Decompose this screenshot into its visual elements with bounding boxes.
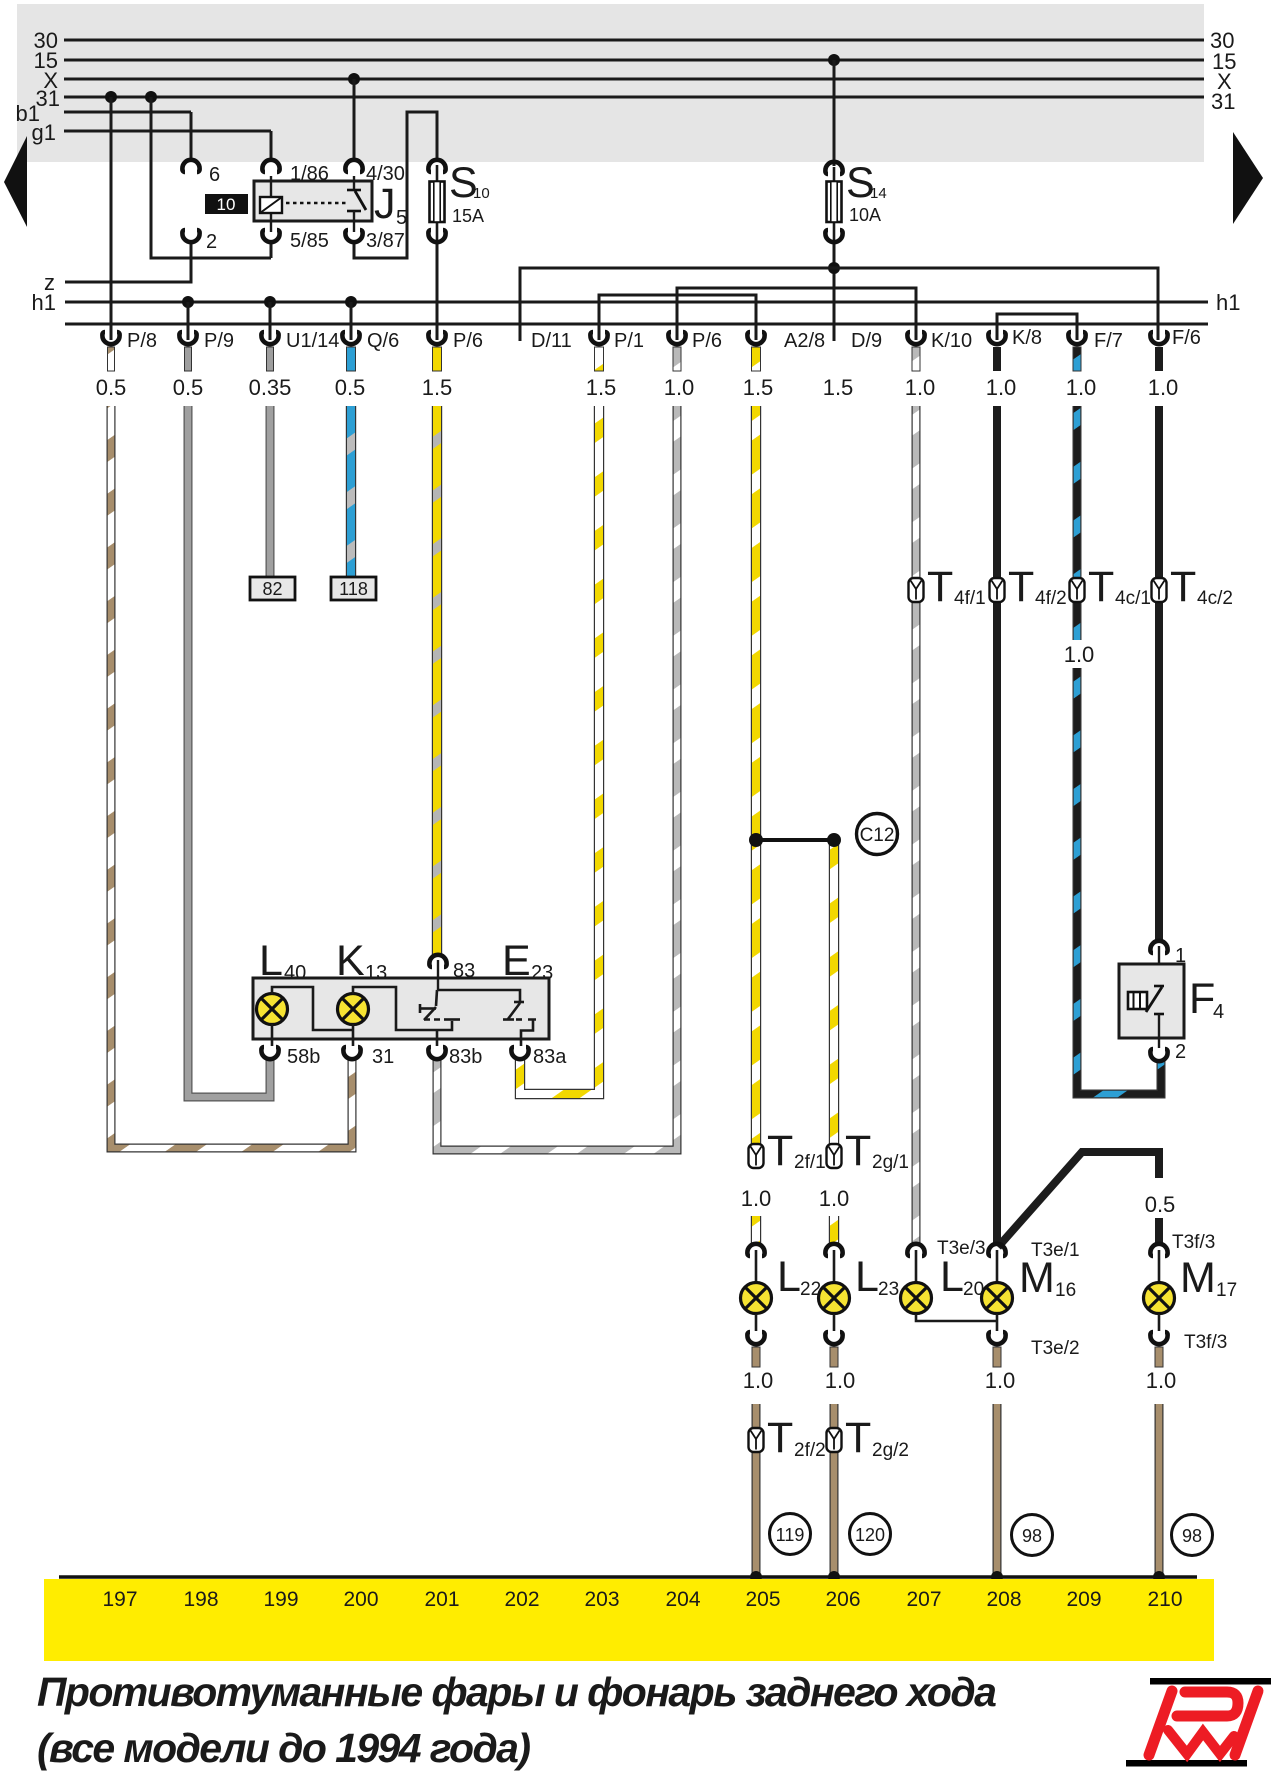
svg-text:F/6: F/6: [1172, 327, 1201, 349]
svg-text:0.35: 0.35: [249, 375, 292, 400]
svg-text:1.0: 1.0: [1148, 375, 1179, 400]
label C12: [857, 814, 898, 855]
svg-text:h1: h1: [1216, 290, 1240, 315]
terminal D/11: [520, 324, 572, 352]
svg-text:40: 40: [284, 962, 306, 984]
line B (P/6 - K/10): [677, 288, 916, 340]
svg-text:Противотуманные фары и фонарь: Противотуманные фары и фонарь заднего хо…: [37, 1669, 996, 1715]
logo: [1126, 1678, 1271, 1767]
svg-text:83: 83: [453, 960, 475, 982]
bus 31: [36, 86, 1236, 114]
fuse S10: [428, 159, 489, 242]
svg-text:14: 14: [870, 185, 887, 202]
svg-text:209: 209: [1066, 1588, 1101, 1611]
svg-text:4f/2: 4f/2: [1035, 588, 1067, 609]
svg-text:D/11: D/11: [531, 330, 572, 352]
gauge labels lamp grounds: [743, 1368, 1177, 1393]
svg-text:0.5: 0.5: [335, 375, 366, 400]
ground point 119: [770, 1514, 811, 1555]
svg-text:P/8: P/8: [127, 330, 157, 352]
lamp unit L23: [819, 1244, 900, 1344]
box 82: [250, 577, 295, 600]
connector T4f/2: [990, 563, 1067, 611]
svg-text:119: 119: [776, 1525, 805, 1545]
terminal D/9: [851, 330, 882, 352]
svg-text:120: 120: [855, 1525, 885, 1545]
terminal P/9: [179, 330, 234, 352]
svg-text:g1: g1: [32, 120, 56, 145]
svg-text:82: 82: [262, 579, 282, 599]
wire P/8 brown-white: [111, 406, 352, 1148]
relay J5: [254, 176, 407, 232]
wire P/9 gray: [188, 406, 270, 1097]
svg-text:1.0: 1.0: [986, 375, 1017, 400]
svg-text:1.0: 1.0: [1146, 1368, 1177, 1393]
wire P/6 yellow-gray: [432, 406, 442, 956]
svg-text:E: E: [502, 937, 531, 985]
terminal A2/8: [747, 330, 825, 352]
box 118: [331, 577, 376, 600]
svg-text:207: 207: [906, 1588, 941, 1611]
svg-text:6: 6: [209, 164, 220, 186]
svg-text:L: L: [259, 937, 283, 985]
svg-text:203: 203: [584, 1588, 619, 1611]
wire P/1 white-yellow to 83a: [520, 406, 599, 1094]
svg-text:T3e/1: T3e/1: [1031, 1240, 1080, 1261]
svg-text:1.0: 1.0: [741, 1186, 772, 1211]
terminal 2: [182, 230, 217, 253]
ground point 98: [1012, 1515, 1053, 1556]
lamp L40: [257, 994, 288, 1025]
ground rail: [59, 1575, 1197, 1579]
svg-text:P/6: P/6: [453, 330, 483, 352]
wire A2/8 yellow-white: [751, 406, 761, 1144]
terminal 58b: [261, 1046, 320, 1068]
gray header band: [17, 4, 1204, 162]
svg-text:L: L: [940, 1253, 964, 1301]
svg-text:K/10: K/10: [931, 330, 972, 352]
svg-text:U1/14: U1/14: [286, 330, 339, 352]
svg-text:31: 31: [1211, 89, 1235, 114]
junction link C12: [756, 838, 834, 842]
bus g1: [32, 120, 271, 145]
wire h1 to Q/6: [350, 302, 353, 340]
svg-text:118: 118: [339, 579, 368, 599]
wire 5/85 down: [270, 242, 273, 258]
connector T2g/2: [827, 1414, 909, 1462]
svg-text:5: 5: [396, 207, 407, 229]
terminal 3/87: [345, 230, 405, 252]
ground point 120: [850, 1514, 891, 1555]
svg-text:2f/2: 2f/2: [794, 1440, 826, 1461]
connector T2g/1: [827, 1127, 909, 1175]
svg-text:199: 199: [263, 1588, 298, 1611]
svg-text:2g/1: 2g/1: [872, 1152, 909, 1173]
E23 internal wiring: [272, 987, 536, 1046]
svg-text:83a: 83a: [533, 1046, 567, 1068]
svg-text:1.0: 1.0: [743, 1368, 774, 1393]
wire 15 to S14: [833, 60, 836, 166]
brown wire stubs under lamps: [752, 1347, 1163, 1367]
svg-text:15A: 15A: [452, 206, 484, 226]
node dot 31/x151: [145, 91, 157, 103]
wire T2g/1 to L23: [829, 1216, 839, 1246]
svg-text:P/1: P/1: [614, 330, 644, 352]
terminal 83: [429, 955, 475, 982]
bus 15: [34, 48, 1237, 74]
switch unit box L40 K13 E23: [253, 937, 553, 1039]
svg-text:208: 208: [986, 1588, 1021, 1611]
svg-text:201: 201: [424, 1588, 459, 1611]
svg-text:0.5: 0.5: [173, 375, 204, 400]
svg-text:5/85: 5/85: [290, 230, 329, 252]
svg-text:200: 200: [343, 1588, 378, 1611]
svg-text:17: 17: [1216, 1280, 1237, 1301]
terminal Q/6: [342, 330, 399, 352]
line z: [44, 270, 55, 295]
wire Q/6 blue-gray: [346, 406, 356, 578]
svg-text:4: 4: [1213, 1001, 1224, 1023]
terminal P/6: [428, 330, 483, 352]
terminal 83b: [428, 1046, 482, 1068]
terminal 83a: [511, 1046, 567, 1068]
svg-text:4c/2: 4c/2: [1197, 588, 1233, 609]
svg-text:2f/1: 2f/1: [794, 1152, 826, 1173]
svg-text:F/7: F/7: [1094, 330, 1123, 352]
wire b1 to terminal 6: [190, 112, 193, 161]
svg-text:83b: 83b: [449, 1046, 482, 1068]
svg-text:1.0: 1.0: [664, 375, 695, 400]
svg-text:L: L: [855, 1253, 879, 1301]
terminal P/8: [102, 330, 157, 352]
svg-text:T3e/3: T3e/3: [937, 1238, 986, 1259]
wire T2f/1 to L22: [751, 1216, 761, 1246]
connector T4c/1: [1070, 563, 1151, 611]
svg-text:D/9: D/9: [851, 330, 882, 352]
line A (S14 distribution): [520, 268, 1158, 340]
svg-text:T: T: [767, 1127, 793, 1175]
svg-text:10A: 10A: [849, 205, 881, 225]
node dot X/430: [348, 73, 360, 85]
svg-text:2g/2: 2g/2: [872, 1440, 909, 1461]
bus b1: [16, 101, 191, 126]
wire P/6 white-gray to 83b: [437, 406, 677, 1150]
svg-text:2: 2: [1175, 1041, 1186, 1063]
lamp unit M16: [982, 1240, 1080, 1359]
ground dots: [750, 1571, 762, 1583]
wire S14 to D/9: [833, 240, 836, 341]
svg-text:58b: 58b: [287, 1046, 320, 1068]
node dot S14 line A: [828, 262, 840, 274]
wire K/8 black: [993, 406, 1001, 578]
svg-text:(все модели до 1994 года): (все модели до 1994 года): [37, 1725, 530, 1771]
lamp unit M17: [1144, 1232, 1238, 1353]
svg-text:98: 98: [1182, 1526, 1202, 1546]
svg-text:1.5: 1.5: [743, 375, 774, 400]
bus 30: [34, 28, 1235, 53]
wire stubs under terminals: [108, 347, 1164, 371]
svg-text:T: T: [845, 1414, 871, 1462]
svg-text:98: 98: [1022, 1526, 1042, 1546]
svg-text:T: T: [1170, 563, 1196, 611]
connector T2f/1: [749, 1127, 826, 1175]
svg-text:1.0: 1.0: [819, 1186, 850, 1211]
svg-text:A2/8: A2/8: [784, 330, 825, 352]
terminal 1/86: [262, 160, 329, 185]
terminal 5/85: [262, 230, 329, 252]
wire C12 branch: [829, 840, 839, 1144]
connector T2f/2: [749, 1414, 826, 1462]
svg-text:10: 10: [217, 195, 236, 214]
terminal F/7: [1068, 330, 1123, 352]
wire 31 to P/8: [110, 97, 113, 340]
svg-text:M: M: [1180, 1254, 1216, 1302]
svg-text:M: M: [1019, 1254, 1055, 1302]
svg-text:T: T: [927, 563, 953, 611]
lower rail: [65, 323, 1208, 326]
svg-text:1.0: 1.0: [905, 375, 936, 400]
svg-text:2: 2: [206, 231, 217, 253]
brown ground wires: [752, 1404, 761, 1577]
wire 3/87 to S10: [354, 112, 437, 258]
wire terminal 2 to z: [65, 242, 191, 282]
wire F/7 black-blue: [1073, 406, 1082, 578]
svg-text:1.0: 1.0: [1064, 642, 1095, 667]
bus X: [43, 68, 1232, 94]
terminal 4/30: [345, 160, 405, 185]
line h1: [32, 290, 1241, 315]
wire S10 to P/6: [436, 240, 439, 340]
node dot 15/S14: [828, 54, 840, 66]
svg-text:1.0: 1.0: [985, 1368, 1016, 1393]
line C (P/1 - A2/8): [599, 295, 756, 340]
svg-text:0.5: 0.5: [1145, 1192, 1176, 1217]
gauge labels row: [96, 375, 1179, 400]
terminal U1/14: [261, 330, 339, 352]
right arrow: [1233, 132, 1263, 224]
svg-text:3/87: 3/87: [366, 230, 405, 252]
terminal P/1: [590, 330, 644, 352]
connector T4c/2: [1152, 563, 1233, 611]
lamp K13: [338, 994, 369, 1025]
wire X to 4/30: [353, 79, 356, 161]
lamp unit L22: [741, 1244, 822, 1344]
svg-text:K: K: [336, 937, 365, 985]
svg-text:210: 210: [1147, 1588, 1182, 1611]
node dot h1/P9: [182, 296, 194, 308]
svg-text:T: T: [845, 1127, 871, 1175]
wire 31 to relay branch: [151, 97, 271, 258]
switch F4: [1119, 941, 1224, 1063]
svg-text:197: 197: [102, 1588, 137, 1611]
wire U1/14 gray: [266, 406, 275, 578]
svg-text:J: J: [374, 180, 396, 228]
svg-text:198: 198: [183, 1588, 218, 1611]
wire h1 to U1/14: [269, 302, 272, 340]
svg-text:T3f/3: T3f/3: [1172, 1232, 1215, 1253]
svg-text:23: 23: [531, 962, 553, 984]
svg-text:T: T: [1088, 563, 1114, 611]
svg-text:P/9: P/9: [204, 330, 234, 352]
bracket K/8 F/7: [997, 314, 1077, 340]
relay current track tag 10: [205, 194, 248, 214]
wire M16 to M17 black 0.5: [998, 1152, 1159, 1247]
svg-text:23: 23: [878, 1279, 899, 1300]
svg-text:T3e/2: T3e/2: [1031, 1338, 1080, 1359]
svg-text:1.0: 1.0: [1066, 375, 1097, 400]
svg-text:h1: h1: [32, 290, 56, 315]
svg-text:4c/1: 4c/1: [1115, 588, 1151, 609]
terminal F/6: [1150, 327, 1201, 349]
svg-text:L: L: [777, 1253, 801, 1301]
svg-text:Q/6: Q/6: [367, 330, 399, 352]
wire F/6 black: [1155, 406, 1163, 578]
lamp unit L20: [901, 1238, 998, 1321]
svg-text:13: 13: [365, 962, 387, 984]
terminal P/6 second: [668, 330, 722, 352]
svg-text:206: 206: [825, 1588, 860, 1611]
terminal 6: [182, 160, 220, 186]
wire g1 to terminal 1/86: [270, 131, 273, 161]
connector T4f/1: [909, 563, 986, 611]
terminal 31: [343, 1046, 394, 1068]
svg-text:F: F: [1189, 975, 1215, 1023]
svg-text:T: T: [767, 1414, 793, 1462]
terminal K/10: [907, 330, 972, 352]
svg-text:0.5: 0.5: [96, 375, 127, 400]
svg-text:1.5: 1.5: [823, 375, 854, 400]
svg-text:1.5: 1.5: [422, 375, 453, 400]
node dot h1/Q6: [345, 296, 357, 308]
track number bar: [44, 1579, 1214, 1661]
svg-text:P/6: P/6: [692, 330, 722, 352]
ground point 98 right: [1172, 1515, 1213, 1556]
wire h1 to P/9: [187, 302, 190, 340]
svg-text:T: T: [1008, 563, 1034, 611]
node dot 31/P8: [105, 91, 117, 103]
svg-text:K/8: K/8: [1012, 327, 1042, 349]
svg-text:204: 204: [665, 1588, 700, 1611]
svg-text:202: 202: [504, 1588, 539, 1611]
svg-text:31: 31: [372, 1046, 394, 1068]
left arrow: [4, 136, 27, 227]
wire K/10 white-gray: [912, 406, 921, 578]
svg-text:16: 16: [1055, 1280, 1076, 1301]
fuse S14: [825, 159, 886, 242]
svg-text:T3f/3: T3f/3: [1184, 1332, 1227, 1353]
svg-text:1.0: 1.0: [825, 1368, 856, 1393]
svg-text:1.5: 1.5: [586, 375, 617, 400]
terminal K/8: [988, 327, 1042, 349]
svg-text:4f/1: 4f/1: [954, 588, 986, 609]
svg-text:C12: C12: [860, 825, 895, 846]
node dot h1/U114: [264, 296, 276, 308]
svg-text:205: 205: [745, 1588, 780, 1611]
svg-text:10: 10: [473, 185, 490, 202]
